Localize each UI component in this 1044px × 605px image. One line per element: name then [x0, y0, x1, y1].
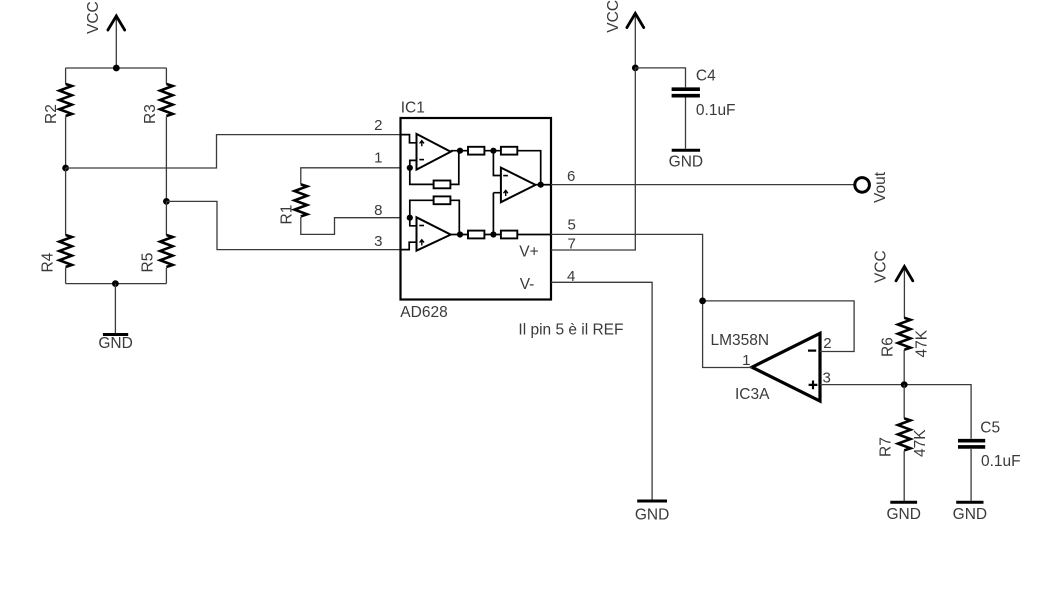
resistor (A2 feedback) — [434, 196, 451, 204]
op-amp A1 (top-left inside IC1) — [417, 134, 451, 170]
op-amp A3 (right inside IC1) — [501, 168, 536, 203]
svg-text:C5: C5 — [980, 420, 1000, 437]
VCC symbol (right, R6) — [873, 250, 913, 318]
svg-text:R2: R2 — [43, 104, 60, 124]
svg-text:2: 2 — [823, 335, 831, 352]
svg-text:LM358N: LM358N — [711, 332, 770, 349]
wire: IC3A output (pin 1) up to node — [703, 301, 752, 368]
A2 plus marker — [420, 240, 424, 246]
junction: VCC to divider top — [113, 65, 120, 72]
junction: VCC rail to C4 — [632, 65, 639, 72]
wire: C4 bottom to ground — [685, 98, 687, 149]
svg-text:GND: GND — [886, 506, 920, 523]
junction: divider bottom to ground — [112, 280, 119, 287]
IC3A minus marker (pin 2) — [808, 350, 816, 352]
op-amp U1 box IC1 (AD628) — [401, 118, 552, 300]
junction: A2 output node — [457, 231, 463, 237]
svg-text:0.1uF: 0.1uF — [981, 453, 1021, 470]
svg-text:R3: R3 — [142, 104, 159, 124]
wire: top rail of divider — [66, 67, 167, 69]
svg-text:GND: GND — [953, 506, 987, 523]
svg-text:R1: R1 — [279, 205, 296, 225]
wire: bottom rail of divider — [66, 283, 167, 285]
capacitor C5 — [958, 420, 1021, 471]
wire: A2 output row — [451, 234, 468, 236]
wire: node Y to A3 non-inverting input — [493, 193, 501, 235]
wire: pin 3 step to A2 non-inverting input — [401, 242, 417, 249]
wire: IC1 pin 4 (V-) to ground — [551, 282, 652, 499]
svg-text:GND: GND — [98, 335, 132, 352]
svg-text:2: 2 — [374, 117, 382, 134]
ground (C4) — [669, 150, 703, 170]
svg-text:VCC: VCC — [605, 0, 622, 33]
A1 plus marker — [420, 141, 424, 147]
junction: R6/R7 node — [901, 381, 908, 388]
resistor R7 — [878, 385, 930, 501]
wire: A1 feedback resistor to A1 output — [450, 151, 458, 185]
op-amp U2 IC3A (LM358N) — [711, 332, 821, 403]
junction: node X — [490, 148, 496, 154]
wire: A3 output to pin 6 — [536, 184, 552, 186]
resistor R4 — [40, 168, 72, 284]
wire: A1 output row — [451, 150, 468, 152]
resistor R5 — [140, 201, 173, 283]
wire: R2/R4 node to IC1 pin 2 — [66, 135, 401, 168]
wire: IC1 pin 6 to Vout — [551, 184, 855, 186]
svg-text:VCC: VCC — [85, 1, 102, 34]
svg-text:R7: R7 — [878, 437, 895, 457]
junction: A1 output node — [457, 148, 463, 154]
svg-text:47K: 47K — [912, 429, 929, 457]
svg-text:R5: R5 — [140, 253, 157, 273]
svg-text:8: 8 — [374, 202, 382, 219]
resistor (bottom row, node Y to pin 5) — [501, 231, 517, 239]
svg-text:C4: C4 — [696, 68, 716, 85]
svg-text:1: 1 — [742, 352, 750, 369]
wire: node X down to A3 inverting input — [493, 151, 501, 176]
svg-text:47K: 47K — [914, 329, 931, 357]
resistor R1 — [279, 168, 401, 235]
wire: bottom row to pin 5 — [517, 234, 551, 236]
resistor (bottom row, A2 out to node Y) — [468, 231, 484, 239]
wire: feedback loop node to IC3A pin 2 — [703, 301, 855, 352]
ground (left divider) — [98, 284, 132, 352]
A3 plus marker — [504, 190, 508, 196]
junction: A3 output node — [538, 182, 544, 188]
junction: REF node — [699, 298, 706, 305]
resistor (top row, A3 feedback) — [501, 147, 517, 155]
resistor R2 — [43, 68, 72, 168]
svg-text:6: 6 — [567, 168, 575, 185]
wire: A2 feedback resistor to A2 output — [450, 200, 459, 234]
ground (R7) — [886, 502, 920, 523]
svg-text:VCC: VCC — [873, 250, 890, 283]
junction: R3/R5 node — [163, 198, 170, 205]
svg-text:0.1uF: 0.1uF — [696, 102, 736, 119]
wire: IC3A pin 3 to R6/R7 node and C5 — [820, 385, 971, 439]
wire: pin 8 node to A2 feedback resistor — [410, 200, 434, 217]
wire: pin 1 step to A1 inverting input — [410, 160, 417, 167]
wire: IC1 pin 5 (REF) down to LM358 node — [551, 234, 703, 301]
A1 minus marker — [419, 159, 424, 161]
op-amp A2 (bottom-left inside IC1) — [417, 217, 451, 250]
svg-text:IC1: IC1 — [401, 100, 425, 117]
resistor R3 — [142, 68, 173, 201]
A3 minus marker — [503, 175, 508, 177]
wire: VCC rail down to IC1 pin 7 (V+) — [551, 68, 635, 250]
terminal Vout — [855, 171, 889, 203]
wire: between bottom row resistors — [484, 234, 501, 236]
wire: C5 bottom to ground — [970, 449, 972, 501]
svg-text:R4: R4 — [40, 252, 57, 272]
svg-text:Vout: Vout — [872, 171, 889, 203]
svg-text:V+: V+ — [519, 243, 538, 260]
ground (IC1 pin 4) — [635, 501, 669, 524]
resistor (top row, A1 out to node X) — [468, 147, 484, 155]
svg-text:1: 1 — [374, 150, 382, 167]
wire: between top row resistors — [484, 150, 501, 152]
VCC symbol (top right) — [605, 0, 644, 68]
VCC symbol (left) — [85, 1, 125, 68]
svg-text:IC3A: IC3A — [735, 386, 770, 403]
svg-text:5: 5 — [568, 217, 576, 234]
svg-text:AD628: AD628 — [400, 304, 447, 321]
svg-text:GND: GND — [635, 507, 669, 524]
wire: R3/R5 node to IC1 pin 3 — [166, 201, 400, 249]
wire: VCC rail to C4 top — [635, 68, 685, 87]
svg-text:Il pin 5 è il REF: Il pin 5 è il REF — [518, 322, 623, 339]
svg-text:R6: R6 — [880, 337, 897, 357]
wire: pin 1 node to A1 feedback resistor — [410, 168, 434, 185]
resistor R6 — [880, 318, 931, 385]
wire: pin 2 input step inside IC — [401, 135, 417, 143]
resistor (A1 feedback) — [434, 181, 451, 189]
junction: pin 1 node — [407, 165, 413, 171]
capacitor C4 — [672, 68, 736, 120]
wire: pin 8 step to A2 inverting input — [410, 218, 417, 226]
svg-text:V-: V- — [520, 276, 535, 293]
wire: A3 feedback resistor to A3 output — [517, 151, 540, 185]
svg-text:3: 3 — [374, 233, 382, 250]
svg-text:3: 3 — [823, 369, 831, 386]
ground (C5) — [953, 502, 987, 523]
svg-text:GND: GND — [669, 154, 703, 171]
A2 minus marker — [419, 225, 424, 227]
junction: R2/R4 node — [62, 165, 69, 172]
junction: node Y — [490, 231, 496, 237]
IC3A plus marker (pin 3) — [809, 381, 818, 390]
junction: pin 8 node — [407, 215, 413, 221]
